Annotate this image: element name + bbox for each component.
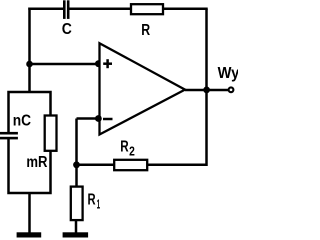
wire box stem to ground <box>28 193 31 233</box>
svg-text:nC: nC <box>13 113 32 130</box>
terminal Wy open circle <box>229 87 234 92</box>
svg-text:mR: mR <box>26 154 47 171</box>
label R <box>141 22 150 39</box>
resistor mR <box>45 116 57 151</box>
wire R2 horizontal <box>77 164 207 167</box>
wire parallel box outline <box>9 92 51 193</box>
label Wy <box>218 65 240 82</box>
wire output <box>185 89 229 92</box>
node junction R1 R2 <box>73 161 80 168</box>
ground left <box>17 232 42 237</box>
wire feedback vertical to R1 R2 node <box>75 119 78 166</box>
resistor R1 <box>71 187 83 221</box>
svg-text:R: R <box>120 139 129 156</box>
ground right <box>63 232 89 237</box>
wire left vertical <box>28 8 31 92</box>
svg-text:1: 1 <box>97 197 101 212</box>
resistor R2 <box>114 160 147 170</box>
op-amp plus sign <box>103 59 112 68</box>
op-amp U1 <box>100 43 186 134</box>
svg-text:2: 2 <box>129 144 135 159</box>
capacitor nC <box>0 132 18 140</box>
wire R1 stem top <box>75 165 78 187</box>
label C <box>62 21 72 38</box>
wire inverting input <box>77 117 99 120</box>
op-amp minus sign <box>103 118 113 121</box>
label mR <box>26 154 47 171</box>
wire right vertical <box>205 9 208 166</box>
wire top from left corner to capacitor C <box>28 7 63 10</box>
label nC <box>13 113 32 130</box>
node junction left at + wire <box>26 61 33 68</box>
svg-text:R: R <box>88 192 96 209</box>
label R1 <box>88 192 101 212</box>
capacitor C <box>63 0 70 19</box>
label R2 <box>120 139 135 159</box>
node junction output <box>203 87 210 94</box>
svg-text:R: R <box>141 22 150 39</box>
svg-text:C: C <box>62 21 72 38</box>
wire R1 to ground <box>75 220 78 233</box>
svg-text:Wy: Wy <box>218 65 238 82</box>
node junction + input <box>95 60 102 67</box>
node junction - input <box>95 115 102 122</box>
wire top from capacitor C to right corner <box>69 7 208 10</box>
wire noninverting input <box>30 63 99 66</box>
resistor R <box>131 4 163 14</box>
